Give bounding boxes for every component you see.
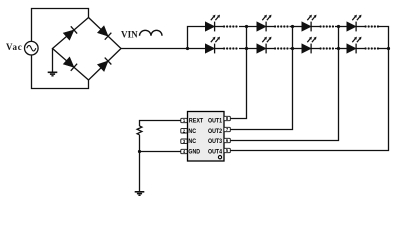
node col1/row1 [245, 25, 248, 28]
node col4/row2 [387, 47, 390, 50]
wire dashed continuation [366, 47, 379, 49]
LED D6 [257, 15, 272, 32]
wire [311, 26, 319, 28]
svg-text:REXT: REXT [189, 117, 203, 124]
svg-text:OUT2: OUT2 [208, 128, 222, 135]
wire dashed continuation [224, 25, 239, 27]
wire: VIN bus from bridge to riser [121, 48, 206, 50]
svg-text:NC: NC [188, 138, 196, 145]
wire [215, 48, 223, 50]
wire: riser to top LED row [188, 27, 206, 49]
LED D9 [205, 37, 220, 54]
IC pin-1 indicator circle [218, 156, 221, 159]
node col1/row2 [245, 47, 248, 50]
node col3/row2 [337, 47, 340, 50]
wire [311, 48, 319, 50]
bridge diamond edges [53, 18, 122, 81]
pin pad 2 (NC) [181, 129, 187, 133]
wire dashed continuation [321, 47, 336, 49]
node col3/row1 [337, 25, 340, 28]
svg-text:GND: GND [188, 149, 200, 156]
wire col3 to OUT3 [231, 27, 339, 141]
svg-text:OUT3: OUT3 [208, 138, 222, 145]
wire: bridge minus stub [52, 49, 54, 73]
wire dashed continuation [275, 25, 290, 27]
wire [356, 26, 364, 28]
wire [215, 26, 223, 28]
pin pad 7 (OUT2) [224, 127, 230, 131]
LED D8 [347, 15, 362, 32]
node VIN junction [186, 47, 189, 50]
wire dashed continuation [224, 47, 239, 49]
svg-text:OUT4: OUT4 [208, 149, 222, 156]
node resistor/GND junction [138, 150, 141, 153]
wire dashed continuation [366, 25, 379, 27]
LED D10 [257, 37, 272, 54]
resistor REXT [137, 126, 142, 135]
wire [266, 26, 274, 28]
ground (REXT) [135, 192, 145, 196]
LED D5 [205, 15, 220, 32]
LED D11 [302, 37, 317, 54]
node col2/row1 [291, 25, 294, 28]
diode D2 (top-right edge) [97, 26, 111, 40]
pin pad 6 (OUT3) [224, 138, 230, 142]
svg-text:VIN: VIN [121, 30, 138, 40]
inductor glyph beside VIN [140, 30, 163, 36]
wire col4 to OUT4 [231, 49, 389, 151]
wire dashed continuation [275, 47, 290, 49]
wire REXT pin to resistor [140, 121, 181, 127]
wire: top rail from Vac to bridge top [32, 9, 89, 42]
diode D1 (top-left edge) [63, 26, 77, 40]
ground (bridge) [48, 72, 58, 76]
wire corner into col4 [378, 27, 389, 49]
diode D3 (bottom-left edge) [63, 57, 77, 71]
node col2/row2 [291, 47, 294, 50]
LED D12 [347, 37, 362, 54]
wire resistor to ground [139, 135, 141, 192]
pin pad 4 (GND) [181, 149, 187, 153]
wire dashed continuation [321, 25, 336, 27]
pin pad 8 (OUT1) [224, 116, 230, 120]
svg-text:Vac: Vac [6, 42, 23, 52]
AC source Vac [25, 41, 39, 55]
svg-text:NC: NC [188, 128, 196, 135]
IC U1 body [188, 112, 225, 162]
wire col1 to OUT1 [231, 27, 247, 119]
wire [266, 48, 274, 50]
wire: bottom rail from Vac to bridge bottom [32, 55, 89, 89]
wire GND pin to resistor leg [140, 151, 181, 153]
pin pad 1 (REXT) [181, 118, 187, 122]
pin pad 3 (NC) [181, 139, 187, 143]
wire col2 to OUT2 [231, 27, 293, 130]
diode D4 (bottom-right edge) [97, 58, 111, 72]
LED D7 [302, 15, 317, 32]
svg-text:OUT1: OUT1 [208, 117, 222, 124]
wire [356, 48, 364, 50]
pin pad 5 (OUT4) [224, 148, 230, 152]
